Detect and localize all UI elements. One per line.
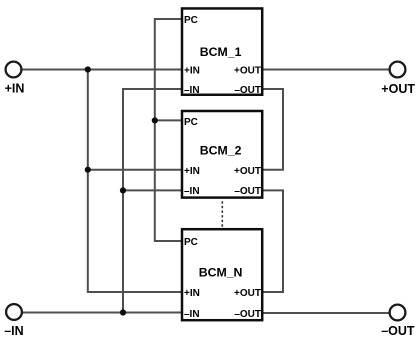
svg-text:–OUT: –OUT xyxy=(234,186,261,197)
svg-text:+IN: +IN xyxy=(184,288,200,299)
svg-text:PC: PC xyxy=(184,117,198,128)
svg-text:+IN: +IN xyxy=(5,82,25,96)
svg-text:–IN: –IN xyxy=(184,186,200,197)
svg-text:–OUT: –OUT xyxy=(234,309,261,320)
svg-text:PC: PC xyxy=(184,237,198,248)
svg-text:–IN: –IN xyxy=(4,324,23,338)
svg-text:–OUT: –OUT xyxy=(234,85,261,96)
svg-text:BCM_N: BCM_N xyxy=(199,266,243,280)
svg-text:PC: PC xyxy=(184,15,198,26)
svg-text:+OUT: +OUT xyxy=(234,288,261,299)
svg-text:+OUT: +OUT xyxy=(234,66,261,77)
svg-text:+IN: +IN xyxy=(184,166,200,177)
svg-text:BCM_2: BCM_2 xyxy=(200,144,242,158)
svg-text:+OUT: +OUT xyxy=(234,166,261,177)
svg-text:–IN: –IN xyxy=(184,85,200,96)
svg-text:–OUT: –OUT xyxy=(381,324,415,338)
svg-text:–IN: –IN xyxy=(184,309,200,320)
svg-text:BCM_1: BCM_1 xyxy=(200,45,242,59)
svg-text:+IN: +IN xyxy=(184,66,200,77)
svg-text:+OUT: +OUT xyxy=(381,82,415,96)
